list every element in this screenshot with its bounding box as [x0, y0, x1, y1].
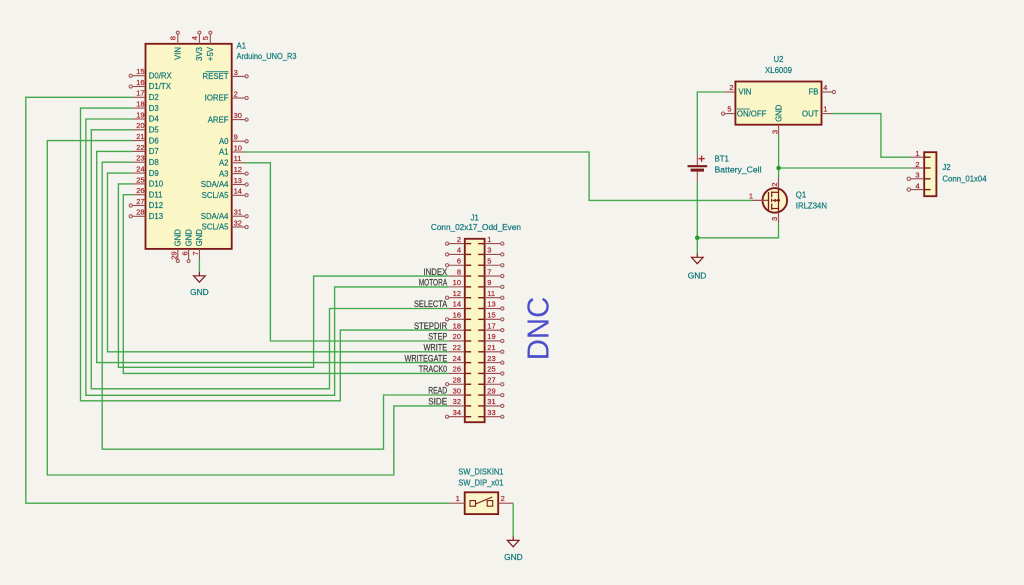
- BT1 top plate: [688, 165, 708, 167]
- wire D4 to J1 MOTORA: [86, 119, 449, 395]
- J1 pin 14: [449, 300, 472, 309]
- svg-text:SDA/A4: SDA/A4: [201, 180, 229, 189]
- connector J2 Conn_01x04: [907, 149, 987, 196]
- svg-text:26: 26: [136, 186, 144, 195]
- SW pin 1: [449, 494, 464, 503]
- J1 pin 34: [446, 408, 472, 418]
- svg-text:5: 5: [487, 256, 491, 265]
- BT1 plus sign: [699, 156, 705, 162]
- wire U2 OUT to J2 pin 1: [832, 114, 910, 158]
- J1 body: [465, 239, 485, 422]
- junction at BT1 ground rail: [695, 236, 700, 241]
- svg-text:SW_DIP_x01: SW_DIP_x01: [458, 479, 503, 488]
- J1 pin 13: [478, 300, 504, 310]
- microcontroller A1 Arduino_UNO_R3: [129, 31, 296, 262]
- svg-text:11: 11: [234, 154, 242, 163]
- svg-text:2: 2: [234, 89, 238, 98]
- A1 pin 32 SCL/A5: [202, 218, 249, 231]
- svg-text:GND: GND: [195, 229, 204, 247]
- svg-text:28: 28: [136, 208, 144, 217]
- wire D9 to J1 WRITE: [108, 173, 449, 352]
- A1 pin 24 D9: [132, 165, 158, 178]
- svg-text:TRACK0: TRACK0: [419, 364, 448, 374]
- svg-text:22: 22: [453, 343, 461, 352]
- svg-text:D10: D10: [149, 180, 164, 189]
- wire A1 GND pin down: [198, 259, 200, 272]
- A1 pin 5 +5V: [201, 31, 215, 61]
- A1 pin 29 GND: [170, 229, 183, 263]
- SW body: [465, 492, 499, 514]
- J1 pin 17: [478, 321, 504, 331]
- svg-text:+5V: +5V: [206, 46, 215, 61]
- svg-text:23: 23: [136, 154, 144, 163]
- svg-text:Conn_01x04: Conn_01x04: [942, 175, 987, 184]
- svg-text:U2: U2: [774, 55, 784, 64]
- svg-text:8: 8: [168, 36, 177, 40]
- svg-text:28: 28: [453, 375, 461, 384]
- A1 pin 22 D7: [132, 143, 158, 156]
- svg-text:17: 17: [136, 89, 144, 98]
- wire D2 to SW_DISKIN1 pin 1: [26, 97, 450, 503]
- wire U2 GND to Q1 drain: [778, 136, 780, 178]
- svg-text:3V3: 3V3: [195, 47, 204, 61]
- svg-text:SELECTA: SELECTA: [414, 299, 447, 309]
- svg-text:26: 26: [453, 365, 461, 374]
- J1 pin 32: [449, 397, 472, 406]
- svg-text:10: 10: [453, 278, 461, 287]
- J1 pin 8: [449, 267, 472, 276]
- svg-text:6: 6: [180, 251, 189, 255]
- svg-text:D11: D11: [149, 190, 163, 199]
- U2 pin 2 VIN: [725, 83, 752, 97]
- A1 pin 10 A1: [219, 143, 245, 156]
- svg-text:IRLZ34N: IRLZ34N: [796, 202, 827, 211]
- svg-text:D12: D12: [149, 201, 163, 210]
- Q1 arrow: [772, 199, 776, 202]
- svg-text:RESET: RESET: [203, 72, 229, 81]
- svg-text:31: 31: [487, 397, 495, 406]
- J1 pin 31: [478, 397, 504, 407]
- Q1 source link: [772, 208, 779, 210]
- svg-text:D6: D6: [149, 136, 159, 145]
- A1 pin 3 RESET: [203, 68, 249, 81]
- U2 pin 5 ON/OFF inverted: [722, 105, 767, 119]
- svg-text:4: 4: [915, 181, 919, 190]
- svg-text:3: 3: [915, 171, 919, 180]
- svg-text:D7: D7: [149, 147, 159, 156]
- J2 body: [924, 152, 936, 196]
- svg-text:15: 15: [487, 311, 495, 320]
- svg-text:14: 14: [453, 300, 461, 309]
- A1 pin 2 IOREF: [205, 89, 249, 102]
- A1 pin 20 D5: [132, 121, 159, 134]
- svg-text:9: 9: [234, 133, 238, 142]
- svg-text:2: 2: [729, 83, 733, 92]
- J1 pin 9: [478, 278, 504, 288]
- svg-text:1: 1: [823, 105, 827, 114]
- A1 pin 18 D3: [132, 100, 158, 113]
- svg-text:1: 1: [456, 494, 460, 503]
- A1 pin 14 SCL/A5: [202, 187, 249, 200]
- svg-text:33: 33: [487, 408, 495, 417]
- svg-text:Arduino_UNO_R3: Arduino_UNO_R3: [237, 52, 297, 61]
- J2 pin 1: [910, 149, 930, 158]
- svg-text:1: 1: [487, 235, 491, 244]
- svg-text:19: 19: [136, 110, 144, 119]
- svg-text:24: 24: [136, 165, 144, 174]
- svg-text:GND: GND: [688, 271, 707, 281]
- svg-text:7: 7: [487, 267, 491, 276]
- svg-text:FB: FB: [809, 88, 819, 97]
- svg-text:32: 32: [453, 397, 461, 406]
- A1 body: [146, 44, 232, 249]
- svg-text:3: 3: [487, 246, 491, 255]
- J1 pin 10: [449, 278, 472, 287]
- wire BT1 to ground rail: [696, 182, 698, 254]
- svg-text:2: 2: [501, 494, 505, 503]
- svg-text:Q1: Q1: [796, 190, 806, 199]
- Q1 gate pin 1: [752, 199, 768, 201]
- svg-text:31: 31: [234, 208, 242, 217]
- svg-text:22: 22: [136, 143, 144, 152]
- A1 pin 17 D2: [132, 89, 158, 102]
- svg-text:D0/RX: D0/RX: [149, 71, 173, 80]
- svg-text:34: 34: [453, 408, 461, 417]
- svg-text:BT1: BT1: [715, 155, 729, 164]
- svg-text:2: 2: [457, 235, 461, 244]
- svg-text:15: 15: [136, 67, 144, 76]
- Q1 gate bar: [768, 192, 770, 210]
- Q1 channel segments: [771, 191, 773, 197]
- wire SW pin 2 to ground: [512, 503, 514, 537]
- J1 pin 33: [478, 408, 504, 418]
- svg-text:12: 12: [453, 289, 461, 298]
- U2 pin 3 GND: [770, 104, 783, 135]
- svg-text:A0: A0: [219, 137, 229, 146]
- svg-text:A2: A2: [219, 159, 229, 168]
- A1 pin 11 A2: [219, 154, 245, 167]
- svg-text:1: 1: [915, 149, 919, 158]
- svg-text:D2: D2: [149, 93, 159, 102]
- svg-text:2: 2: [770, 182, 779, 186]
- J1 pin 4: [446, 246, 472, 256]
- wire D6 to J1 SIDE: [47, 141, 448, 475]
- svg-text:17: 17: [487, 321, 495, 330]
- A1 pin 6 GND: [180, 229, 193, 263]
- svg-text:SCL/A5: SCL/A5: [202, 191, 230, 200]
- wire U2 VIN to BT1: [697, 92, 724, 154]
- svg-text:5: 5: [201, 36, 210, 40]
- Q1 drain-source bar: [778, 188, 780, 212]
- svg-text:D9: D9: [149, 169, 159, 178]
- J1 pin 15: [478, 311, 504, 321]
- transistor Q1 IRLZ34N: [749, 178, 827, 224]
- J1 pin 21: [478, 343, 504, 353]
- svg-text:ON/OFF: ON/OFF: [737, 109, 767, 118]
- svg-text:13: 13: [234, 176, 242, 185]
- svg-text:D13: D13: [149, 212, 163, 221]
- svg-text:MOTORA: MOTORA: [419, 278, 448, 288]
- svg-text:D4: D4: [149, 115, 160, 124]
- svg-text:16: 16: [453, 311, 461, 320]
- A1 pin 16 D1/TX: [129, 78, 172, 91]
- wire A2 to J1 STEP: [245, 163, 449, 341]
- ground symbol below BT1: [691, 253, 703, 263]
- A1 pin 9 A0: [219, 133, 248, 146]
- svg-text:30: 30: [234, 111, 242, 120]
- wire junction to J2 pin 2: [779, 167, 911, 169]
- J1 pin 28: [446, 375, 472, 385]
- A1 pin 8 VIN: [168, 31, 182, 60]
- wire A1 to Q1 gate: [245, 152, 752, 200]
- svg-text:21: 21: [487, 343, 495, 352]
- svg-text:5: 5: [727, 105, 731, 114]
- svg-text:3: 3: [770, 217, 779, 221]
- wire D8 to J1 READ: [102, 162, 449, 449]
- battery BT1 Battery_Cell: [688, 154, 762, 183]
- svg-text:J1: J1: [471, 214, 479, 223]
- regulator U2 XL6009: [722, 55, 836, 136]
- svg-text:25: 25: [136, 175, 144, 184]
- J1 pin 12: [446, 289, 472, 299]
- svg-text:19: 19: [487, 332, 495, 341]
- wire D10 to J1 INDEX: [118, 184, 448, 367]
- svg-text:GND: GND: [504, 552, 523, 562]
- switch SW_DISKIN1 SW_DIP_x01: [449, 467, 513, 514]
- svg-text:INDEX: INDEX: [423, 267, 447, 277]
- Q1 drain link: [772, 191, 779, 193]
- svg-text:A1: A1: [237, 41, 247, 50]
- svg-text:32: 32: [234, 218, 242, 227]
- A1 pin 12 A3: [219, 165, 248, 178]
- svg-text:WRITE: WRITE: [423, 343, 447, 353]
- svg-text:16: 16: [136, 78, 144, 87]
- svg-text:25: 25: [487, 365, 495, 374]
- svg-text:J2: J2: [942, 163, 950, 172]
- svg-text:Conn_02x17_Odd_Even: Conn_02x17_Odd_Even: [431, 223, 521, 232]
- SW contacts and lever: [470, 497, 493, 506]
- svg-text:D5: D5: [149, 126, 160, 135]
- J1 pin 22: [449, 343, 472, 352]
- svg-text:27: 27: [136, 197, 144, 206]
- svg-text:READ: READ: [428, 386, 447, 396]
- J1 pin 24: [449, 354, 472, 363]
- ground symbol below A1: [194, 272, 206, 282]
- J1 pin 1: [478, 235, 504, 245]
- svg-text:A3: A3: [219, 169, 229, 178]
- svg-text:XL6009: XL6009: [765, 66, 792, 75]
- A1 pin 7 GND: [191, 229, 204, 260]
- svg-text:DNC: DNC: [521, 297, 556, 361]
- Q1 drain pin 2: [778, 178, 780, 189]
- A1 pin 23 D8: [132, 154, 158, 167]
- J1 pin 26: [449, 365, 472, 374]
- svg-text:STEPDIR: STEPDIR: [414, 321, 447, 331]
- J2 pin 4: [907, 181, 931, 191]
- A1 pin 27 D12: [129, 197, 163, 210]
- J1 pin 3: [478, 246, 504, 256]
- svg-text:3: 3: [770, 130, 779, 134]
- J1 pin 5: [478, 256, 504, 266]
- A1 pin 19 D4: [132, 110, 159, 123]
- J1 pin 7: [478, 267, 504, 277]
- BT1 pin 2: [696, 172, 698, 183]
- A1 pin 30 AREF: [208, 111, 248, 124]
- svg-text:2: 2: [915, 160, 919, 169]
- svg-text:AREF: AREF: [208, 115, 229, 124]
- svg-text:24: 24: [453, 354, 461, 363]
- svg-text:9: 9: [487, 278, 491, 287]
- connector J1 Conn_02x17_Odd_Even: [431, 214, 521, 423]
- svg-text:D3: D3: [149, 104, 159, 113]
- svg-text:11: 11: [487, 289, 495, 298]
- svg-text:18: 18: [453, 321, 461, 330]
- svg-text:29: 29: [170, 251, 179, 259]
- J2 pin 3: [907, 171, 931, 181]
- svg-text:23: 23: [487, 354, 495, 363]
- wire ground rail to Q1 source: [697, 223, 778, 238]
- BT1 pin 1 +: [696, 154, 698, 167]
- svg-text:20: 20: [136, 121, 144, 130]
- svg-text:10: 10: [234, 143, 242, 152]
- J1 pin 18: [449, 321, 472, 330]
- svg-text:21: 21: [136, 132, 144, 141]
- J1 pin 29: [478, 386, 504, 396]
- svg-text:WRITEGATE: WRITEGATE: [404, 353, 447, 363]
- A1 pin 26 D11: [132, 186, 162, 199]
- A1 pin 13 SDA/A4: [201, 176, 248, 189]
- ground symbol below SW: [507, 537, 519, 547]
- J1 pin 2: [446, 235, 472, 245]
- svg-text:VIN: VIN: [174, 47, 183, 60]
- svg-text:18: 18: [136, 100, 144, 109]
- A1 pin 15 D0/RX: [129, 67, 172, 80]
- svg-text:SIDE: SIDE: [428, 397, 447, 407]
- A1 pin 28 D13: [129, 208, 163, 221]
- U2 pin 1 OUT: [802, 105, 832, 119]
- svg-text:SCL/A5: SCL/A5: [202, 223, 230, 232]
- svg-text:D1/TX: D1/TX: [149, 82, 172, 91]
- J1 pin 11: [478, 289, 504, 299]
- svg-text:6: 6: [457, 256, 461, 265]
- svg-text:8: 8: [457, 267, 461, 276]
- svg-text:Battery_Cell: Battery_Cell: [715, 165, 762, 174]
- SW pin 2: [498, 494, 513, 503]
- svg-text:GND: GND: [184, 229, 193, 247]
- svg-text:GND: GND: [190, 287, 209, 297]
- svg-text:7: 7: [191, 251, 200, 255]
- wire D7 to J1 WRITEGATE: [97, 151, 449, 362]
- U2 pin 4 FB: [809, 83, 836, 97]
- A1 pin 4 3V3: [190, 31, 204, 61]
- svg-text:A1: A1: [219, 148, 229, 157]
- svg-text:GND: GND: [774, 104, 783, 122]
- svg-text:GND: GND: [174, 229, 183, 247]
- svg-text:4: 4: [823, 83, 827, 92]
- junction at Q1 drain / J2 pin 2: [776, 166, 781, 171]
- J1 pin 27: [478, 375, 504, 385]
- svg-text:VIN: VIN: [738, 88, 751, 97]
- svg-text:12: 12: [234, 165, 242, 174]
- J1 pin 23: [478, 354, 504, 364]
- wire D3 to J1 STEPDIR: [81, 108, 449, 401]
- Q1 body circle: [763, 188, 788, 213]
- A1 pin 31 SDA/A4: [201, 208, 248, 221]
- svg-text:STEP: STEP: [428, 332, 447, 342]
- svg-text:13: 13: [487, 300, 495, 309]
- svg-text:4: 4: [190, 36, 199, 40]
- Q1 source pin 3: [778, 213, 780, 224]
- svg-text:D8: D8: [149, 158, 159, 167]
- svg-text:IOREF: IOREF: [205, 94, 229, 103]
- svg-text:27: 27: [487, 375, 495, 384]
- svg-text:1: 1: [749, 192, 753, 201]
- BT1 bottom plate: [691, 169, 704, 172]
- svg-text:SDA/A4: SDA/A4: [201, 212, 229, 221]
- svg-text:14: 14: [234, 187, 242, 196]
- svg-text:OUT: OUT: [802, 109, 819, 118]
- J1 pin 6: [446, 256, 472, 266]
- svg-text:SW_DISKIN1: SW_DISKIN1: [458, 467, 503, 476]
- J1 pin 25: [478, 365, 504, 375]
- J1 pin 16: [446, 311, 472, 321]
- J1 pin 20: [449, 332, 472, 341]
- svg-text:20: 20: [453, 332, 461, 341]
- svg-text:30: 30: [453, 386, 461, 395]
- A1 pin 21 D6: [132, 132, 158, 145]
- wire D5 to J1 SELECTA: [91, 130, 448, 389]
- J1 pin 30: [449, 386, 472, 395]
- wire D11 to J1 TRACK0: [123, 195, 448, 374]
- U2 body: [735, 82, 821, 125]
- J1 pin 19: [478, 332, 504, 342]
- svg-text:29: 29: [487, 386, 495, 395]
- svg-text:4: 4: [457, 246, 461, 255]
- A1 pin 25 D10: [132, 175, 163, 188]
- svg-text:3: 3: [234, 68, 238, 77]
- J2 pin 2: [910, 160, 930, 169]
